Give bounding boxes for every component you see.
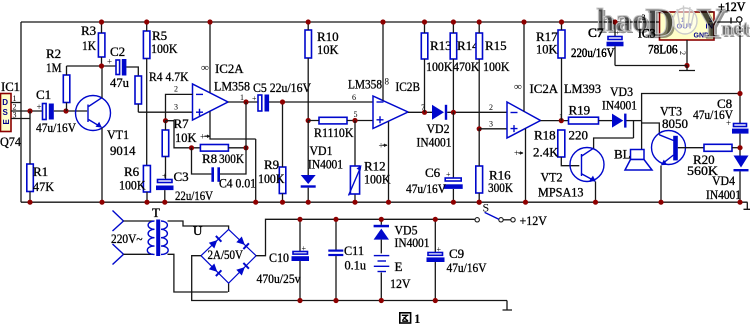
svg-text:IN4001: IN4001 (395, 235, 430, 250)
svg-text:300K: 300K (488, 180, 514, 195)
secondary bottom wire to bridge (168, 254, 229, 292)
IC2A pin 2 net (166, 94, 193, 120)
svg-text:IN4001: IN4001 (706, 187, 741, 202)
svg-text:100K: 100K (151, 41, 178, 56)
op-amp IC2B (LM358 second half) (373, 96, 408, 129)
resistor R8 (200, 145, 228, 152)
svg-text:R4 4.7K: R4 4.7K (149, 69, 189, 84)
diode VD1 (307, 121, 309, 176)
wire pin3 to comparator (479, 128, 507, 130)
resistor R9 (279, 167, 286, 194)
transformer T primary winding (147, 221, 154, 254)
op-amp IC2A (LM358 first half) (193, 84, 229, 120)
svg-text:3: 3 (174, 103, 178, 112)
bridge diode bottom-left (209, 263, 222, 276)
svg-text:Q74: Q74 (0, 134, 21, 149)
svg-text:2: 2 (174, 85, 178, 94)
transformer T secondary winding (161, 221, 168, 254)
VT1 emitter wire (101, 128, 103, 203)
svg-text:220u/16V: 220u/16V (571, 45, 615, 60)
IC2A pin 8 wire (209, 22, 211, 93)
svg-text:2.4K: 2.4K (533, 145, 559, 160)
resistor R7 (162, 130, 169, 157)
voltage regulator IC3 78L06 (660, 12, 715, 40)
svg-text:C6: C6 (425, 165, 441, 180)
bridge diode bottom-right (236, 262, 249, 275)
figure label 1 (400, 313, 411, 323)
svg-text:IC2A: IC2A (215, 61, 244, 76)
+12V terminal top right (714, 21, 738, 23)
svg-text:+: + (200, 132, 205, 142)
svg-text:IN4001: IN4001 (417, 135, 452, 150)
resistor R3 (98, 33, 105, 57)
svg-text:IC3: IC3 (638, 26, 656, 41)
resistor R11 (319, 117, 347, 124)
ground symbol (679, 66, 695, 71)
transformer core (156, 220, 160, 257)
PSU ground bus (192, 256, 507, 301)
dot R1 bottom rail (27, 200, 32, 205)
diode VD2 (432, 105, 444, 120)
LM393 power pin wire (525, 129, 527, 203)
VT2 collector wire (594, 121, 634, 149)
svg-text:2A/50V: 2A/50V (208, 247, 244, 262)
capacitor C11 (335, 219, 337, 249)
svg-text:+: + (252, 94, 257, 103)
bridge output wire to +12V bus (256, 219, 475, 255)
PSU ground symbol (503, 301, 513, 311)
wire R7 to C3 (165, 157, 167, 180)
LM393 pin 8 wire (523, 22, 525, 112)
svg-text:R13: R13 (430, 38, 452, 53)
svg-text:78L06: 78L06 (648, 42, 678, 57)
resistor R14 (450, 33, 457, 59)
svg-text:6: 6 (352, 93, 356, 102)
VT3 base wire (678, 147, 704, 149)
svg-text:100K: 100K (364, 172, 391, 187)
svg-text:R18: R18 (534, 128, 556, 143)
wire C1 to base node (54, 110, 87, 112)
diode VD3 (612, 114, 623, 128)
svg-text:E: E (2, 119, 11, 125)
VT2 emitter wire (595, 182, 597, 203)
svg-text:C11: C11 (344, 243, 364, 258)
capacitor C9 (434, 219, 436, 252)
transistor VT3 (652, 131, 686, 165)
resistor R4 (135, 76, 142, 104)
transistor VT2 (570, 148, 604, 182)
svg-text:2: 2 (489, 103, 493, 112)
svg-text:+: + (162, 172, 167, 181)
bridge rectifier U diamond (201, 229, 256, 283)
IC2A output wire (228, 101, 258, 103)
node dot R2/base (63, 108, 68, 113)
resistor R19 (569, 117, 599, 124)
svg-text:10K: 10K (536, 42, 558, 57)
potentiometer R12 (354, 121, 356, 203)
bridge diode top-right (236, 236, 249, 249)
diode VD5 (380, 219, 382, 225)
bottom rail end tick (744, 202, 750, 209)
svg-text:+12V: +12V (520, 213, 548, 228)
svg-text:VD4: VD4 (712, 173, 735, 188)
svg-text:C9: C9 (449, 246, 464, 261)
primary wires (124, 221, 154, 254)
node wire R2top/R3bot/C2 (67, 65, 117, 67)
speaker feed wire (641, 121, 643, 150)
svg-text:C5 22u/16V: C5 22u/16V (253, 80, 312, 95)
svg-text:R7: R7 (174, 116, 190, 131)
svg-text:3: 3 (489, 120, 493, 129)
IC2A power pin wire (210, 112, 256, 203)
IC2B output wire (408, 111, 432, 113)
svg-text:R1: R1 (33, 164, 48, 179)
feedback wire pin2 to R8 (166, 121, 201, 148)
dot S on rail (477, 200, 482, 205)
VT3 collector wire (642, 123, 660, 135)
capacitor C4 loop (192, 148, 212, 174)
svg-text:1: 1 (240, 93, 244, 102)
resistor R18 (558, 130, 565, 157)
svg-text:BL: BL (614, 147, 631, 162)
svg-text:R3: R3 (81, 23, 96, 38)
resistor R2 (63, 75, 70, 103)
resistor R10 (305, 30, 312, 58)
svg-text:LM358: LM358 (214, 79, 250, 94)
svg-text:47u/16V: 47u/16V (693, 107, 734, 122)
svg-text:10K: 10K (175, 130, 197, 145)
svg-text:LM358: LM358 (348, 77, 382, 92)
battery E (374, 255, 390, 257)
capacitor C2 (116, 60, 120, 75)
LM393 output wire (541, 120, 569, 122)
svg-text:IN4001: IN4001 (602, 98, 637, 113)
svg-text:C2: C2 (110, 44, 125, 59)
bridge diode top-left (209, 235, 222, 248)
svg-text:5: 5 (354, 110, 358, 119)
capacitor C7 (614, 22, 616, 37)
svg-text:MPSA13: MPSA13 (538, 185, 584, 200)
svg-text:100K: 100K (483, 59, 510, 74)
capacitor C10 (299, 219, 301, 251)
svg-text:8: 8 (385, 77, 390, 87)
svg-text:∞: ∞ (514, 81, 522, 93)
svg-text:22u/16V: 22u/16V (175, 188, 214, 203)
svg-text:R19: R19 (569, 103, 591, 118)
svg-text:2: 2 (678, 51, 687, 55)
wire pin2 to node (11, 110, 43, 112)
IC3 ground pin wire (686, 40, 688, 66)
transformer T primary terminals (113, 211, 124, 232)
capacitor C6 (452, 112, 454, 178)
node dot R10/R11/VD1 (306, 118, 311, 123)
+12V right rail (739, 22, 741, 203)
svg-text:C4 0.01: C4 0.01 (219, 176, 256, 191)
svg-text:VT2: VT2 (541, 170, 563, 185)
VT1 collector wire (101, 66, 103, 98)
node wire to +12V rail (642, 94, 740, 121)
svg-text:220: 220 (569, 128, 589, 143)
capacitor C5 (258, 95, 262, 111)
svg-text:T: T (152, 205, 160, 220)
resistor R13 (421, 33, 428, 59)
svg-text:47K: 47K (33, 179, 55, 194)
svg-text:D: D (2, 98, 8, 107)
svg-text:47u/16V: 47u/16V (406, 181, 447, 196)
svg-text:47u/16V: 47u/16V (447, 260, 488, 275)
VT3 emitter wire (660, 166, 662, 203)
watermark haoDIY.net (596, 0, 750, 49)
left rail wire (20, 22, 22, 202)
svg-text:9014: 9014 (110, 143, 136, 158)
wire pin3 (11, 118, 30, 120)
svg-text:IC1: IC1 (1, 79, 20, 94)
svg-text:10K: 10K (317, 42, 339, 57)
svg-text:+: + (446, 170, 451, 179)
capacitor C1 (43, 104, 47, 120)
IC2B power pin wire (388, 122, 390, 203)
svg-text:3: 3 (642, 13, 646, 22)
svg-text:R8: R8 (202, 151, 217, 166)
svg-text:IN4001: IN4001 (308, 157, 343, 172)
svg-text:U: U (193, 223, 203, 238)
svg-text:+: + (514, 148, 519, 158)
wire pin1 to left rail (11, 102, 21, 104)
IC2B pin 8 wire (382, 22, 384, 101)
svg-text:IC2B: IC2B (396, 79, 421, 94)
svg-text:LM393: LM393 (564, 81, 601, 96)
svg-text:470u/25v: 470u/25v (257, 271, 301, 286)
svg-text:470K: 470K (453, 59, 480, 74)
svg-text:R1110K: R1110K (314, 125, 354, 140)
ground wire C7 to IC3 (615, 65, 687, 67)
svg-text:∞: ∞ (201, 62, 209, 74)
resistor R6 (143, 166, 150, 193)
svg-text:8050: 8050 (662, 116, 688, 131)
svg-text:R15: R15 (485, 38, 507, 53)
wire C2 to R4 (126, 67, 138, 76)
svg-text:47u: 47u (110, 75, 129, 90)
resistor R1 (27, 164, 34, 192)
top +6V rail (21, 21, 660, 23)
svg-text:C1: C1 (36, 87, 51, 102)
capacitor C3 (158, 180, 173, 183)
svg-text:E: E (395, 259, 403, 274)
comparator IC2A LM393 (507, 102, 541, 138)
node dot C1/R1 (27, 108, 32, 113)
capacitor C8 (734, 124, 747, 127)
svg-text:0.1u: 0.1u (345, 258, 367, 273)
IC1 connector box (1, 94, 12, 132)
resistor R15 (476, 33, 483, 59)
svg-text:+: + (37, 102, 42, 112)
svg-text:100K: 100K (119, 178, 146, 193)
wire C5 to R10 node (269, 101, 373, 103)
svg-text:12V: 12V (390, 276, 411, 291)
svg-text:C3: C3 (174, 169, 189, 184)
transistor VT1 (76, 96, 111, 131)
svg-text:S: S (3, 108, 9, 117)
bottom +12V rail (21, 201, 748, 203)
svg-text:100K: 100K (258, 171, 285, 186)
wire R5 to R6 (146, 59, 148, 166)
svg-text:100K: 100K (426, 59, 453, 74)
wire pin3 input (138, 111, 192, 113)
speaker BL (631, 150, 645, 160)
svg-text:IC2A: IC2A (530, 81, 559, 96)
svg-text:1M: 1M (46, 60, 62, 75)
secondary top wire to bridge (168, 221, 229, 229)
svg-text:300K: 300K (219, 151, 245, 166)
svg-text:R2: R2 (46, 46, 61, 61)
svg-text:+12V: +12V (718, 0, 746, 14)
svg-text:R9: R9 (264, 157, 279, 172)
resistor R17 (558, 30, 565, 58)
svg-text:1: 1 (414, 311, 421, 324)
resistor R20 (704, 144, 732, 151)
svg-text:net: net (721, 16, 749, 40)
svg-text:1K: 1K (82, 38, 97, 53)
svg-text:47u/16V: 47u/16V (36, 120, 77, 135)
resistor R5 (143, 31, 150, 59)
svg-text:C10: C10 (269, 250, 289, 265)
svg-text:C7: C7 (588, 25, 604, 40)
svg-text:VT1: VT1 (107, 127, 129, 142)
diode VD4 (734, 156, 749, 168)
resistor R16 (476, 166, 483, 193)
svg-text:220V~: 220V~ (111, 231, 143, 246)
